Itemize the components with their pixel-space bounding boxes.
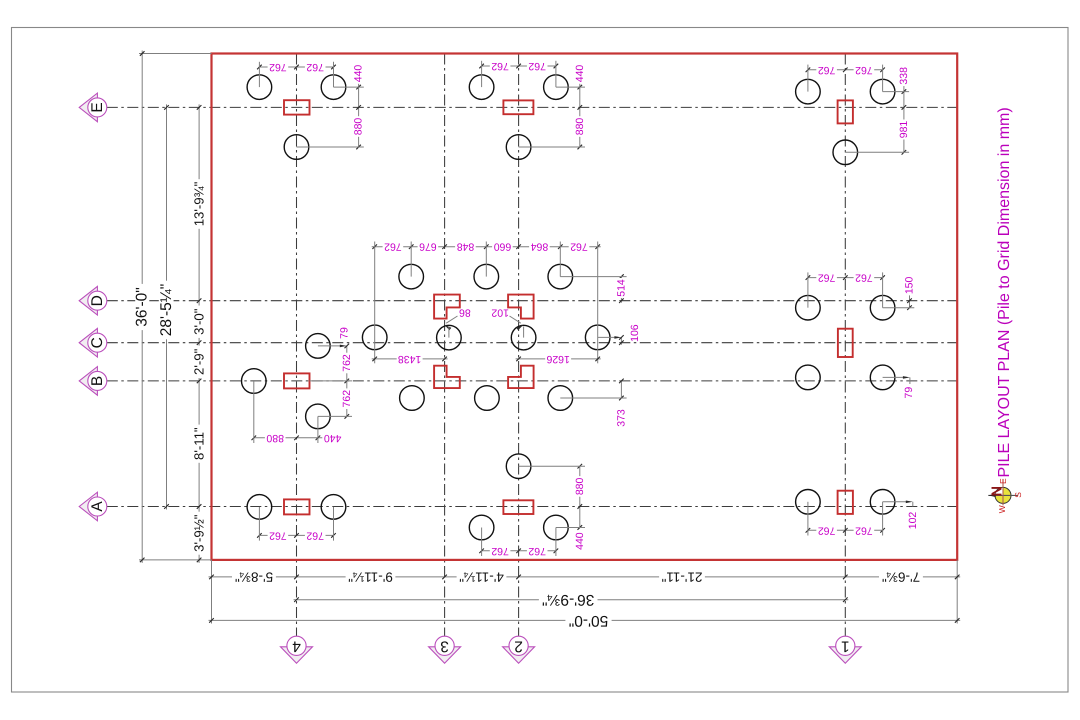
dim text 880 (E4) [354,116,364,137]
svg-text:762: 762 [855,272,873,284]
column D3 (red L-shape) [434,295,460,319]
svg-text:762: 762 [306,529,324,541]
svg-text:E: E [998,478,1008,484]
grid line 2 (vertical dash-dot) [518,54,520,637]
pile P19 (A4 left) [247,495,272,520]
svg-text:4: 4 [292,637,301,654]
dimension 28'-5 1/4" (left, E to A) [166,104,168,509]
svg-text:150: 150 [904,276,916,294]
svg-text:1: 1 [841,637,850,654]
grid line D (horizontal dash-dot) [107,300,957,302]
dim line 1626 [516,358,601,360]
svg-text:2: 2 [514,637,523,654]
pile P31 (center bottom row 1) [400,386,425,411]
dimension 9'-11 1/4" [346,571,396,584]
pile P15 (A1 right) [870,490,895,515]
svg-text:1438: 1438 [398,353,422,365]
svg-text:762: 762 [818,272,836,284]
svg-text:762: 762 [528,60,546,72]
svg-text:W: W [997,505,1007,513]
svg-text:762: 762 [818,524,836,536]
grid bubble A [79,492,97,521]
leader 102 center [510,316,521,323]
pile P1 (E4 left) [247,75,272,100]
column E1 (red, portrait) [838,100,853,123]
dim text 440 (B4) [322,433,343,443]
pile P5 (E2 right) [544,75,569,100]
svg-text:28'-5¼": 28'-5¼" [158,284,175,336]
svg-text:79: 79 [903,387,915,399]
dim text 864 (chain 5) [529,242,550,252]
dim line 106 [620,337,622,344]
dim line 762/762 at E4 [259,66,333,68]
svg-text:A: A [89,501,106,512]
svg-text:762: 762 [491,545,509,557]
dim text 150 (D1) [904,275,914,295]
svg-text:E: E [89,102,106,112]
bottom dimension row 2 line [294,599,849,601]
column E4 (red) [284,100,310,114]
svg-text:880: 880 [266,432,284,444]
grid line 4 (vertical dash-dot) [296,54,298,637]
svg-text:762: 762 [269,529,287,541]
pile P14 (A1 left) [796,490,821,515]
dim text 762 (B4 upper) [342,353,352,374]
dim leader 79 at B4 [318,345,344,347]
dim text 880 (A2) [575,476,585,497]
svg-text:762: 762 [818,64,836,76]
dim line 762/762 at A4 [259,534,333,536]
dim text 338 (E1) [899,66,909,87]
dim line 150 at D1 [909,278,911,308]
pile P8 (E1 right) [870,79,895,104]
pile P20 (A4 right) [321,495,346,520]
column A4 (red) [284,499,310,514]
dimension 3'-9 1/2" (A-edge) [193,512,205,555]
dim text 514 [616,278,626,298]
dimension chain center top [372,246,601,248]
svg-text:762: 762 [570,241,588,253]
dimension 7'-6 3/4" [879,571,923,584]
pile P7 (E1 left) [796,79,821,104]
grid bubble 1 [829,647,861,663]
grid line C (horizontal dash-dot) [107,342,957,344]
dim text 981 (E1) [899,120,909,140]
column D2 (red L-shape) [508,295,533,319]
pile P10 (D1 left) [796,295,821,320]
dim line 762/762 at E2 [482,65,556,67]
grid bubble 3 [429,647,461,663]
dim text 880 (E2) [575,116,585,137]
svg-text:514: 514 [615,279,627,297]
dim line 762/762 at E1 [808,69,883,71]
svg-text:3'-0": 3'-0" [192,308,207,335]
dim text 762 (E2 right) [527,61,548,71]
svg-text:3: 3 [440,637,449,654]
pile P25 (center top row 2) [474,264,499,289]
svg-text:21'-11": 21'-11" [661,569,702,584]
svg-text:880: 880 [353,118,365,136]
column C1 (red, portrait) [838,329,853,357]
pile P2 (E4 right) [321,75,346,100]
dim line 373 [620,381,622,398]
dim text 762 (chain 1) [383,242,404,252]
svg-text:13'-9¾": 13'-9¾" [192,181,207,226]
dim line 762/762 at A1 [808,529,883,531]
svg-text:4'-11¼": 4'-11¼" [459,569,504,584]
svg-text:762: 762 [341,390,353,408]
dimension 2'-9" (C-B) [193,346,205,378]
dim leader 102 at A1 [883,501,910,503]
dim text 762 (B4 lower) [342,388,352,409]
column E2 (red) [503,100,533,114]
pile P4 (E2 left) [469,75,494,100]
pile P26 (center top row 3) [548,264,573,289]
pile P6 (below E2) [506,135,531,160]
grid line A (horizontal dash-dot) [107,506,957,508]
svg-text:373: 373 [615,409,627,427]
dim text 762 (E4 right) [305,62,326,72]
dim text 848 (chain 3) [455,242,476,252]
pile P13 (B1 right) [870,365,895,390]
dim text 762 (A4 right) [305,530,326,540]
pile P29 (center mid right) [511,325,536,350]
leader 86 [446,316,457,323]
grid line 1 (vertical dash-dot) [844,54,846,637]
dim text 762 (E2 left) [490,61,511,71]
svg-text:338: 338 [898,67,910,85]
svg-text:106: 106 [629,324,641,342]
dim text 762 (A4 left) [268,530,289,540]
svg-text:660: 660 [494,241,512,253]
column A2 (red) [503,500,533,514]
dim text 762 (E1 left) [816,65,837,75]
column B3 (red L-shape) [434,366,460,388]
svg-text:36'-0": 36'-0" [134,287,151,326]
svg-text:D: D [89,295,106,306]
svg-text:880: 880 [574,477,586,495]
svg-text:102: 102 [907,512,919,530]
dim line 1438 [372,358,448,360]
svg-text:762: 762 [269,61,287,73]
dim text 762 (A2 left) [490,546,511,556]
dimension 36'-0" (left overall) [139,53,212,55]
svg-text:PILE LAYOUT PLAN (Pile to Grid: PILE LAYOUT PLAN (Pile to Grid Dimension… [996,107,1013,477]
dim leader 79 at B1 [883,376,907,378]
grid bubble C [79,328,97,357]
column B2 (red L-shape) [508,366,533,388]
pile P27 (center mid far-left) [362,325,387,350]
grid line B (horizontal dash-dot) [107,380,957,382]
svg-text:762: 762 [341,354,353,372]
dimension 3'-0" (D-C) [193,306,205,338]
dim text 440 (E4) [354,63,364,84]
svg-text:762: 762 [491,60,509,72]
svg-text:102: 102 [491,307,509,319]
north arrow compass [995,487,1011,503]
svg-text:5'-8¾": 5'-8¾" [235,569,273,584]
dim text 762 (A2 right) [527,546,548,556]
grid bubble E [79,93,97,122]
dim text 676 (chain 2) [418,242,439,252]
pile P18 (below B4) [306,404,331,429]
svg-text:762: 762 [384,241,402,253]
dimension 4'-11 1/4" [457,571,507,584]
dim line 440/880 at E4 [358,67,360,147]
pile P22 (A2 left) [469,515,494,540]
grid bubble D [79,286,97,315]
svg-text:440: 440 [324,432,342,444]
pile P33 (center bottom row 3) [548,386,573,411]
dim line 880/440 at A2 [579,466,581,527]
svg-text:981: 981 [898,121,910,139]
dimension chain left (grid spacings) [198,104,200,563]
svg-text:440: 440 [353,65,365,83]
svg-text:3'-9½": 3'-9½" [192,514,207,552]
svg-text:762: 762 [306,61,324,73]
svg-text:762: 762 [855,64,873,76]
svg-text:B: B [89,376,106,386]
pile P28 (center mid left) [437,325,462,350]
dimension 21'-11" [659,571,705,584]
dim line 440/880 at E2 [579,66,581,147]
pile P30 (center mid far-right) [585,325,610,350]
grid bubble B [79,367,97,396]
svg-text:C: C [89,337,106,348]
dim line 762/762 vertical at B4 [346,346,348,417]
svg-text:2'-9": 2'-9" [192,348,207,375]
svg-text:864: 864 [531,241,549,253]
svg-text:880: 880 [574,118,586,136]
dim text 440 (A2) [575,531,585,552]
svg-text:86: 86 [459,307,471,319]
plan boundary (red rectangle) [212,54,958,560]
svg-text:79: 79 [338,327,350,339]
column B4 (red) [284,373,310,388]
svg-text:848: 848 [457,241,475,253]
dim text 762 (A1 right) [854,525,875,535]
dim line 880/440 at B4 [254,437,326,439]
dim text 762 (D1 left) [816,273,837,283]
pile P9 (below E1) [833,140,858,165]
column A1 (red, portrait) [838,491,853,514]
pile P32 (center bottom row 2) [475,386,500,411]
dimension 8'-11" (B-A) [193,425,205,463]
dim text 660 (chain 4) [492,242,513,252]
dim text 762 (E1 right) [854,65,875,75]
svg-text:N: N [990,486,1006,496]
dim line 762/762 at A2 [482,550,556,552]
pile P16 (B4 left) [242,369,267,394]
dim text 440 (E2) [575,63,585,84]
svg-text:7'-6¾": 7'-6¾" [882,569,920,584]
svg-text:50'-0": 50'-0" [569,612,608,629]
bottom edge extension lines [211,560,213,624]
pile P23 (A2 right) [544,515,569,540]
dim text 762 (A1 left) [816,525,837,535]
dim text 762 (chain 6) [569,242,590,252]
bottom dimension row 1 line [209,576,961,578]
svg-text:762: 762 [855,524,873,536]
pile P21 (above A2) [506,454,531,479]
dimension 13'-9 3/4" (E-D) [193,179,205,229]
svg-text:676: 676 [419,241,437,253]
dim line 762/762 at D1 [808,277,883,279]
dim text 762 (E4 left) [268,62,289,72]
svg-text:8'-11": 8'-11" [192,427,207,460]
svg-text:762: 762 [528,545,546,557]
pile P11 (D1 right) [870,295,895,320]
pile P17 (above B4) [306,334,331,359]
svg-text:9'-11¼": 9'-11¼" [348,569,393,584]
grid bubble 2 [503,647,535,663]
svg-text:1626: 1626 [546,353,570,365]
pile P12 (B1 left) [796,365,821,390]
bottom dimension row 3 line [209,619,961,621]
dimension 5'-8 3/4" [232,571,276,584]
dim line 338/981 at E1 [903,70,905,153]
pile P3 (below E4) [284,135,309,160]
dim line 514 [620,277,622,303]
grid line E (horizontal dash-dot) [107,106,957,108]
grid bubble 4 [281,647,313,663]
grid line 3 (vertical dash-dot) [444,54,446,637]
pile P24 (center top row 1) [399,264,424,289]
svg-text:36'-9¾": 36'-9¾" [542,591,594,608]
svg-text:440: 440 [574,532,586,550]
svg-text:440: 440 [574,65,586,83]
svg-text:S: S [1013,492,1023,498]
dim text 762 (D1 right) [854,273,875,283]
dim text 880 (B4) [265,433,286,443]
